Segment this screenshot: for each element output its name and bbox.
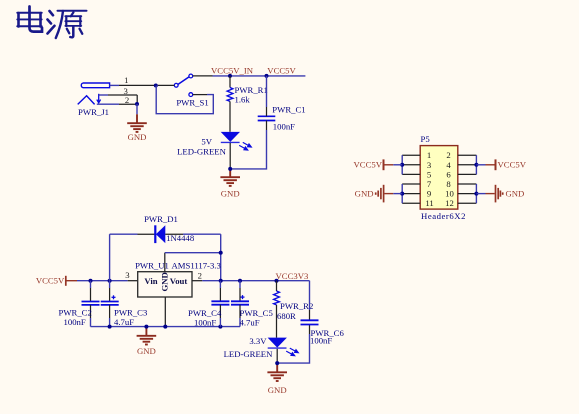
wire switch throw2 loop xyxy=(156,86,213,114)
capacitor PWR_C1 xyxy=(258,116,276,120)
svg-text:PWR_C2: PWR_C2 xyxy=(59,308,92,318)
wire junction to switch common xyxy=(158,84,175,86)
svg-text:VCC5V: VCC5V xyxy=(354,160,383,170)
svg-text:VCC5V_IN: VCC5V_IN xyxy=(211,65,254,75)
regulator tab pin to Vout xyxy=(165,253,221,272)
svg-text:PWR_J1: PWR_J1 xyxy=(78,107,109,117)
junction U1 gnd xyxy=(163,325,167,329)
header right pin stubs xyxy=(458,155,477,203)
junction at switch input xyxy=(154,84,158,88)
junction right vcc xyxy=(474,163,478,167)
svg-text:P5: P5 xyxy=(421,134,430,144)
ground GND (regulator) xyxy=(137,327,157,345)
capacitor PWR_C5 (polarized) xyxy=(231,281,249,327)
svg-text:VCC5V: VCC5V xyxy=(498,160,527,170)
wire junction to C6 bottom xyxy=(309,325,311,335)
wire jack pin3 xyxy=(99,94,138,96)
LED PWR 3.3V LED-GREEN xyxy=(268,338,299,356)
wire jack pin2 xyxy=(97,95,137,104)
svg-text:PWR_D1: PWR_D1 xyxy=(144,214,178,224)
junction C2 xyxy=(89,279,93,283)
svg-text:VCC5V: VCC5V xyxy=(36,276,65,286)
header left pin stubs xyxy=(402,155,420,203)
svg-text:8: 8 xyxy=(446,179,451,189)
ground GND (LED1) xyxy=(220,169,240,186)
svg-text:2: 2 xyxy=(446,150,450,160)
power port VCC5V right xyxy=(476,159,526,170)
svg-text:LED-GREEN: LED-GREEN xyxy=(177,146,226,156)
led light arrows xyxy=(286,348,298,356)
wire left pins 7-9-11 bus xyxy=(401,184,403,203)
junction C3 / diode xyxy=(108,279,112,283)
svg-text:2: 2 xyxy=(125,95,129,105)
connector PWR_J1 barrel xyxy=(78,83,110,104)
resistor PWR_R1 xyxy=(227,76,233,132)
svg-text:7: 7 xyxy=(427,179,432,189)
led light arrows xyxy=(239,142,251,150)
svg-text:12: 12 xyxy=(445,198,454,208)
wire right pins 8-10-12 bus xyxy=(475,184,477,203)
svg-text:3: 3 xyxy=(125,270,129,280)
svg-text:6: 6 xyxy=(446,169,451,179)
bottom gnd rail xyxy=(91,326,241,328)
svg-text:Vin: Vin xyxy=(144,276,157,286)
junction left vcc xyxy=(400,163,404,167)
svg-text:GND: GND xyxy=(506,188,525,198)
svg-text:100nF: 100nF xyxy=(194,318,216,328)
svg-text:4.7uF: 4.7uF xyxy=(240,318,260,328)
svg-text:680R: 680R xyxy=(277,311,296,321)
svg-text:GND: GND xyxy=(160,272,170,291)
junction C3 bottom xyxy=(108,325,112,329)
title 电 (dian) drawn strokes xyxy=(17,7,42,32)
wire junction to gnd xyxy=(136,104,138,114)
svg-text:GND: GND xyxy=(268,385,287,395)
svg-text:1: 1 xyxy=(427,150,431,160)
ground GND (LED2) xyxy=(267,363,287,381)
svg-text:PWR_U1: PWR_U1 xyxy=(135,261,169,271)
junction VCC5V at C1 xyxy=(265,74,269,78)
svg-text:GND: GND xyxy=(137,346,156,356)
wire jack pin1 to junction xyxy=(110,84,155,86)
svg-text:PWR_C3: PWR_C3 xyxy=(114,308,147,318)
svg-text:100nF: 100nF xyxy=(273,121,295,131)
svg-text:4: 4 xyxy=(446,160,451,170)
svg-text:VCC3V3: VCC3V3 xyxy=(276,271,309,281)
diode PWR_D1 1N4448 xyxy=(110,225,221,280)
junction R2 top xyxy=(275,279,279,283)
capacitor PWR_C3 (polarized) xyxy=(101,281,119,327)
header P5 box xyxy=(420,146,458,210)
capacitor PWR_C6 xyxy=(301,281,319,325)
wire junction to C1 bottom xyxy=(230,130,266,169)
wire left pins 1-3-5 bus xyxy=(401,155,403,174)
title 源 (yuan) drawn strokes xyxy=(48,11,87,38)
junction pin2 xyxy=(219,279,223,283)
svg-text:2: 2 xyxy=(198,270,202,280)
junction LED2 gnd xyxy=(275,361,279,365)
capacitor PWR_C4 xyxy=(211,281,229,327)
svg-text:4.7uF: 4.7uF xyxy=(114,317,134,327)
svg-text:PWR_S1: PWR_S1 xyxy=(176,97,208,107)
switch PWR_S1 xyxy=(174,74,192,96)
wire LED to gnd junction xyxy=(229,143,231,169)
LED PWR 5V LED-GREEN xyxy=(221,132,252,150)
svg-text:10: 10 xyxy=(445,189,454,199)
junction C4 bottom xyxy=(218,325,222,329)
junction LED1 gnd xyxy=(228,167,232,171)
svg-text:100nF: 100nF xyxy=(64,317,86,327)
wire right pins 2-4-6 bus xyxy=(475,155,477,174)
capacitor PWR_C2 xyxy=(82,281,100,327)
wire LED2 to gnd junction xyxy=(276,349,278,363)
power port GND left xyxy=(355,185,403,203)
svg-text:PWR_C4: PWR_C4 xyxy=(188,308,222,318)
svg-text:PWR_R2: PWR_R2 xyxy=(280,301,313,311)
svg-text:100nF: 100nF xyxy=(310,335,332,345)
junction gnd tap xyxy=(144,325,148,329)
power port VCC5V bottom left xyxy=(36,276,77,286)
svg-text:11: 11 xyxy=(425,198,433,208)
wire switch throw1 to VCC5V rail xyxy=(193,75,306,77)
junction tab/diode xyxy=(219,251,223,255)
junction right gnd xyxy=(474,192,478,196)
svg-text:5V: 5V xyxy=(201,137,212,147)
svg-text:VCC5V: VCC5V xyxy=(267,65,296,75)
svg-text:3: 3 xyxy=(427,160,431,170)
svg-text:1.6k: 1.6k xyxy=(235,94,251,104)
junction C5 top xyxy=(238,279,242,283)
svg-text:1: 1 xyxy=(124,75,128,85)
svg-text:5: 5 xyxy=(427,169,431,179)
regulator pin2 stub xyxy=(192,280,310,282)
junction left gnd xyxy=(400,192,404,196)
svg-text:9: 9 xyxy=(427,189,431,199)
power port GND right xyxy=(476,185,524,203)
svg-text:3.3V: 3.3V xyxy=(249,336,267,346)
svg-text:Vout: Vout xyxy=(170,276,188,286)
ground GND (jack) xyxy=(127,114,147,132)
wire VCC5V rail to regulator xyxy=(77,280,138,282)
resistor PWR_R2 xyxy=(274,281,280,338)
svg-text:PWR_C1: PWR_C1 xyxy=(272,105,305,115)
svg-text:LED-GREEN: LED-GREEN xyxy=(224,349,273,359)
svg-text:GND: GND xyxy=(221,189,240,199)
svg-text:PWR_C5: PWR_C5 xyxy=(240,308,273,318)
jack pin2 chevron contact xyxy=(78,96,95,105)
header pin numbers xyxy=(425,150,454,208)
svg-text:AMS1117-3.3: AMS1117-3.3 xyxy=(172,261,221,271)
power port VCC5V left xyxy=(354,159,403,170)
svg-text:Header6X2: Header6X2 xyxy=(421,211,466,221)
junction VCC5V_IN xyxy=(228,74,232,78)
regulator PWR_U1 AMS1117-3.3 xyxy=(138,272,192,297)
svg-text:1N4448: 1N4448 xyxy=(166,233,195,243)
svg-text:GND: GND xyxy=(128,132,147,142)
junction jack pin2/pin3 xyxy=(135,102,139,106)
jack pin3 arrow contact xyxy=(98,94,100,103)
regulator gnd pin xyxy=(164,297,166,327)
svg-text:GND: GND xyxy=(355,188,374,198)
